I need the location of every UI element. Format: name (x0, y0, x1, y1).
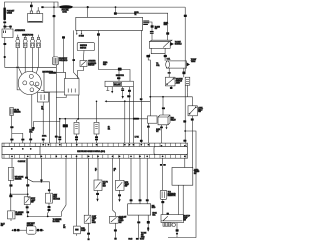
transmission box (161, 215, 184, 223)
connector blob ecu2 (139, 199, 142, 201)
connector blob sender A (96, 193, 99, 195)
wire x54 column (53, 2, 55, 57)
wire plug1 to distributor (18, 48, 22, 75)
connector blob x167.7 (166, 32, 169, 35)
wire switch down (26, 205, 29, 217)
idle stop solenoid (52, 57, 58, 65)
connector blob x22.8 (21, 139, 24, 141)
distributor tower right (35, 82, 39, 86)
bulkhead body right (154, 147, 188, 155)
wire y69.5 horizontal (98, 70, 130, 82)
junction dot wide box top (167, 213, 169, 215)
tick above junction (40, 179, 42, 181)
ground arrow ecu (147, 229, 149, 231)
wire coolant switch ground (88, 223, 90, 238)
ignition switch bottom stub A (81, 30, 83, 33)
wire x56.3 to bar (55, 65, 57, 143)
ground arrow sender A (96, 199, 98, 202)
junction dot x87.7 (87, 6, 89, 8)
svg-text:TERM: TERM (191, 61, 196, 63)
connector blob on y69.5 (118, 68, 122, 71)
wire regulator right terminal to feed (37, 7, 39, 11)
wire buzzer right (36, 229, 44, 231)
stub below lower box (10, 219, 12, 221)
four wheel drive box (172, 168, 193, 186)
resistor component right (160, 190, 167, 199)
wire battery top feed (5, 2, 59, 7)
connector tick relay (160, 127, 163, 129)
connector blob on y118.8 (133, 118, 139, 120)
junction dot x185 y131 (184, 130, 186, 132)
wire x133.4 to bar (132, 87, 134, 143)
connector blob x43 (42, 139, 45, 141)
svg-text:SWITCH: SWITCH (88, 65, 95, 67)
knock switch box (110, 216, 119, 223)
wire gauge down (10, 180, 12, 194)
spark plug 2 (23, 35, 27, 48)
capacitor component (185, 77, 190, 85)
wire x112.5 long to knock switch (113, 158, 116, 216)
junction dot x54 feed (53, 6, 55, 8)
svg-text:WT: WT (156, 131, 158, 133)
long wire x150.3 to bar (148, 57, 150, 116)
svg-text:BALLAST: BALLAST (114, 83, 121, 86)
ground arrow trans (176, 233, 178, 236)
connector blob lower (26, 211, 29, 213)
svg-text:SOLENOID: SOLENOID (59, 60, 68, 62)
connector blob sender B (118, 194, 121, 196)
svg-text:COIL: COIL (156, 65, 160, 67)
wire module to coil (150, 54, 166, 61)
svg-text:COIL: COIL (167, 59, 171, 61)
junction tick feed (41, 6, 43, 8)
diode box (46, 193, 53, 203)
svg-text:MODULE: MODULE (175, 44, 183, 46)
wire capacitor drop joins y96.8 (186, 92, 188, 97)
wire riser x119 (118, 71, 120, 82)
fusible link (59, 5, 73, 8)
ground arrow sender B (118, 199, 120, 202)
svg-text:ALTERNATOR: ALTERNATOR (15, 29, 26, 32)
wire ecu drop right (147, 215, 149, 227)
connector blob knock (114, 229, 117, 231)
connector blob x129.4 (127, 95, 130, 97)
wire vacuum switch ground (170, 86, 172, 87)
junction dots strip upper (11, 148, 13, 150)
ballast resistor box (105, 81, 133, 87)
junction dot y181.8 (41, 181, 43, 183)
wire branch to distributor left (17, 67, 21, 90)
buzzer feed arrow (11, 229, 13, 232)
resistor drop3 with connector (122, 87, 124, 96)
connector blob x119 (117, 77, 120, 79)
resistor drop stub1 (106, 87, 109, 91)
wire knock switch ground (114, 223, 116, 238)
connector dash x163 (162, 107, 165, 109)
wire ecu drop left (138, 215, 140, 238)
wire x30.7 blob to bar (30, 133, 32, 143)
relay 3d box (158, 115, 170, 125)
wire x184.8 below bar (184, 158, 186, 167)
wire relay y118 drop (147, 123, 149, 143)
wire starter relay drop (42, 102, 44, 143)
connector blob x185 mid (183, 120, 186, 122)
bulkhead connector strip upper (2, 143, 188, 146)
wire x41.4 from bar (40, 158, 42, 179)
bulkhead body left (2, 147, 40, 155)
voltage regulator box (28, 14, 43, 23)
junction dot y96.8 x150.3 (149, 96, 151, 98)
junction dot y101.3 x124.8 (124, 100, 126, 102)
connector blob below switch (26, 206, 29, 208)
svg-text:SENDER: SENDER (15, 179, 22, 181)
connector blob relay drop (147, 126, 150, 128)
connector blob x11.8 up (10, 126, 13, 128)
connector blob ecu1 (130, 199, 133, 201)
connector blob x54 (53, 15, 56, 17)
connector blob ecu3 (146, 199, 149, 201)
gauge component box left (8, 168, 14, 181)
starter relay box (38, 93, 49, 103)
junction dot x59.8 (59, 118, 61, 120)
connector blob pair buzzer right (37, 229, 39, 232)
connector blob pair coil drop right (182, 72, 185, 75)
wire x129.4 to bar (128, 87, 130, 143)
sender switch box B (116, 180, 125, 190)
wire y96.8 to right (150, 97, 192, 106)
connector dashes x152 (150, 31, 154, 32)
connector blob below alternator (3, 43, 6, 45)
connector blob x141.3 (140, 98, 143, 100)
relay stub arrow (166, 125, 168, 127)
wire coil drop left (168, 68, 170, 77)
connector blob x115.5 (114, 12, 117, 15)
connector pins ignition switch right (143, 21, 149, 22)
connector blob alt B (9, 26, 12, 28)
wire regulator left terminal to frame (30, 2, 32, 11)
wire tee y133.4 (12, 133, 23, 143)
connector blob pair ecu drop right (147, 221, 150, 224)
wire y101.3 with left arrow (107, 100, 151, 102)
stub below power module (76, 234, 78, 236)
wire sender A ground (97, 191, 99, 199)
wire plug3 to distributor (32, 48, 34, 72)
ignition coil cylinder (166, 61, 186, 68)
connector blob pair below module left (146, 55, 150, 58)
power module box (74, 226, 81, 234)
distributor tower left (23, 81, 27, 85)
starter motor box (44, 72, 66, 92)
wire alternator down (5, 38, 57, 68)
svg-text:SPARK PLUGS: SPARK PLUGS (22, 34, 34, 37)
oil sender unit (10, 108, 14, 116)
wire y118.8 horizontal (60, 118, 148, 120)
wire x115.5 drop (115, 7, 117, 12)
junction dot y118.8 x65.3 (64, 118, 66, 120)
buzzer box (27, 226, 37, 234)
junction dots strip lower (11, 156, 13, 158)
svg-text:SWITCH: SWITCH (80, 47, 87, 49)
wire module bottom drops (151, 48, 165, 53)
wire x162.6 below bar (162, 158, 164, 190)
spark plug 1 (16, 35, 20, 48)
svg-text:TO ST: TO ST (140, 239, 145, 241)
wire diode down (48, 203, 49, 216)
connector blob x30.7 (29, 139, 32, 141)
junction dot y101.3 x96.5 (96, 101, 98, 103)
wire capacitor down (186, 85, 188, 92)
resistor drop arrow2 (111, 87, 113, 91)
starter solenoid box (64, 79, 79, 96)
regulator terminal nub right (37, 11, 39, 14)
connector blob x185 low (183, 140, 186, 142)
ignition switch box (76, 17, 143, 30)
wire resistor down (162, 199, 164, 214)
wire x76.5 long drop (76, 158, 78, 226)
distributor circle (18, 71, 41, 94)
module arrow (171, 42, 175, 45)
ignition switch bottom stub B (76, 30, 78, 33)
junction dot y118.8 x78.3 (77, 118, 79, 120)
connector blob pair x152 (151, 25, 154, 27)
wire trans ground (176, 223, 178, 233)
wire x87.7 to ignition switch box (87, 7, 89, 17)
wire x63.5 to starter (63, 39, 65, 73)
wire x12 below bar (11, 158, 13, 167)
connector blob x141.3 low (140, 140, 143, 142)
wire x98 to sender switch (97, 158, 99, 180)
svg-text:RESISTOR: RESISTOR (168, 195, 177, 197)
wire 4wd drops (179, 185, 184, 214)
alternator box (2, 29, 13, 38)
svg-text:STARTER: STARTER (49, 72, 57, 75)
connector blob x185 top (184, 15, 187, 17)
svg-text:SENDER: SENDER (14, 111, 21, 113)
vacuum switch box (165, 77, 175, 86)
wire x10.8 to lower box (10, 194, 12, 211)
wire branch y13 to x167.7 (117, 13, 168, 40)
strip lower cell ticks (4, 155, 186, 159)
ignition module 3d box (149, 40, 172, 41)
connector blob coolant (87, 233, 90, 235)
fuse component x96.5 (94, 122, 99, 134)
wire x163 drop to relay (162, 97, 164, 116)
wire y118.8 to ground strap (33, 119, 59, 127)
hatch rect below trans (163, 223, 171, 227)
wire y194.2 link (11, 193, 28, 195)
connector blob battery bottom (3, 21, 6, 23)
wire label box to solenoid switch (83, 51, 86, 61)
wire x124.8 to bar (124, 101, 126, 143)
connector blob x11.8 low (10, 139, 13, 141)
svg-text:MODULE: MODULE (53, 199, 61, 201)
connector blob ecu drop left (137, 221, 140, 223)
wire right side to bottom corner (168, 131, 196, 238)
wire distributor right y90 (41, 90, 49, 143)
sender lower box (8, 211, 16, 219)
circle blob below trans (172, 223, 175, 226)
sender switch box A (94, 180, 102, 191)
wire plug2 to distributor (24, 48, 26, 73)
ground dot knock (114, 238, 116, 240)
wire x98.4 to resistor line (97, 30, 99, 69)
distributor rotor line (34, 85, 41, 90)
svg-text:ST IGN: ST IGN (79, 36, 85, 38)
long wire x185 feed to bar (184, 7, 186, 143)
svg-text:RESISTOR: RESISTOR (116, 75, 125, 77)
battery cable (thick bar) (3, 7, 6, 20)
wire x27.7 below bar (27, 158, 29, 197)
wire x26.3 diagonal branch (26, 158, 49, 193)
wire from connector to module (149, 22, 152, 40)
svg-text:SENDER: SENDER (16, 214, 23, 216)
connector blob pair x59.8 (58, 136, 61, 138)
connector blob resistor drop (161, 201, 164, 203)
bulkhead connector strip lower (2, 155, 188, 159)
ground dot vacuum switch (170, 87, 173, 89)
connector blob x10.5 (9, 184, 12, 186)
connector blob pair x96.5 (95, 136, 98, 138)
wire x88.6 long drop (88, 158, 90, 215)
wire x66 slant (62, 158, 67, 216)
connector tick x129.4 (128, 90, 131, 92)
wire fuse2 to bar (96, 134, 98, 143)
junction dot y96.8 x163 (162, 96, 164, 98)
wire x117.8 to sender switch B (119, 158, 121, 180)
wire fuse to bar (77, 119, 79, 143)
oil pressure switch box right (188, 106, 197, 116)
connector blob x27.7 (26, 184, 29, 186)
connector tick alt wire (4, 56, 6, 58)
bottom dash left (136, 238, 139, 240)
wire x140 to ecu (139, 158, 141, 204)
wire oil sender to bar (11, 116, 13, 144)
connector blob x56.3 (55, 136, 58, 138)
connector block x65.3 (63, 124, 68, 127)
svg-text:BLOWER: BLOWER (53, 221, 61, 223)
svg-text:ELECTRONIC SPARK CONTROL (ESC): ELECTRONIC SPARK CONTROL (ESC) (77, 150, 105, 153)
wire buzzer left (13, 229, 26, 231)
connector blob trans ground (176, 229, 179, 231)
wire solenoid switch down (78, 67, 84, 79)
ground dot ecu (147, 227, 149, 229)
wire solenoid bottom jog (56, 95, 66, 98)
wire relay down to bar (161, 125, 163, 143)
svg-text:90-18: 90-18 (128, 239, 132, 241)
wire x131 to ecu (130, 158, 132, 204)
strip upper cell ticks (4, 143, 186, 146)
spark plug 4 (37, 35, 41, 48)
connector blob x10.8 (9, 195, 12, 197)
connector blob pair x76.5 (75, 136, 78, 138)
wire x65.3 down to bar (64, 119, 66, 143)
solenoid switch box (80, 61, 87, 67)
connector blob pair buzzer left (14, 229, 16, 232)
spark plug 3 (31, 35, 35, 48)
wire coil drop right (183, 68, 185, 77)
small relay box y118 (148, 116, 158, 123)
wire fuse2 up (96, 101, 98, 122)
coil arrow (187, 62, 190, 66)
connector blob on regulator wire (30, 5, 33, 8)
regulator terminal nub left (30, 11, 32, 14)
wire battery to alternator (5, 23, 11, 29)
wire x59.8 to bar (59, 119, 61, 143)
wire sender B ground (119, 190, 121, 199)
connector blob below module right (164, 55, 167, 57)
wire main feed y7 (44, 6, 186, 8)
ignition switch label box (77, 43, 94, 51)
distributor tower bottom (30, 88, 34, 92)
connector blob x63.5 (62, 36, 65, 38)
wire switch C down (191, 116, 193, 168)
ground dot coolant (88, 238, 90, 240)
label ballast (114, 82, 122, 85)
distributor tower center (30, 81, 34, 85)
ground blob strap (32, 127, 34, 129)
connector dash x49.4 (48, 189, 51, 191)
connector blob alt A (3, 26, 6, 28)
ecu box (128, 204, 151, 215)
junction dot x115.5 feed (115, 6, 117, 8)
coolant switch box (84, 215, 91, 223)
long wire x141.3 box to bar (140, 30, 142, 143)
distributor tower top (29, 74, 33, 78)
connector blob pair diode (48, 206, 51, 208)
connector blob switch C (191, 118, 194, 120)
connector dash coil drop (168, 72, 171, 74)
fuse component x76.5 (74, 122, 79, 134)
wire y216.4 long (28, 215, 62, 217)
wire plug4 to distributor (36, 48, 38, 74)
svg-text:C-102 BLK: C-102 BLK (18, 161, 26, 163)
wire x147.2 to ecu (146, 158, 148, 204)
wire distributor bottom drop (31, 95, 33, 129)
connector blob diag (25, 177, 28, 179)
connector blob pair x162.6 (160, 164, 163, 166)
wire x73.6 column (74, 30, 79, 118)
stop lamp switch box (24, 197, 30, 205)
connector blob x73.6 (72, 59, 75, 61)
connector blob x98.4 (97, 33, 100, 36)
